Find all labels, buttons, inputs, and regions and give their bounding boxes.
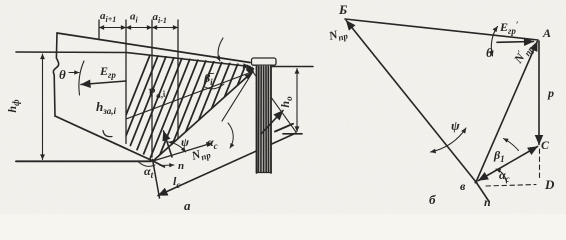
N_pr arrow at vertex (up) [164,131,173,157]
n leader arrow [160,164,174,167]
beta_i arc [205,84,224,89]
fan line steep short [222,72,253,122]
theta arc at wall [79,61,84,95]
E_gr arrow [81,81,126,85]
l_c long arrow [158,133,296,196]
slip line from vertex to pile [153,72,253,162]
pile cap [252,58,277,65]
line crossing pile to h0 bottom [253,72,296,132]
dashed C-D [539,149,541,180]
small curl on block bottom edge [103,131,112,137]
alpha_c arc [228,123,233,148]
n normal stub [153,161,165,167]
alpha_c arc [496,169,507,183]
arrowheads at convergence point [243,66,249,67]
N_pr inclined line [153,143,212,161]
N'_pr vector v->A [476,42,537,183]
E'_gr arrow [497,41,534,44]
block left edge with break symbol [53,33,58,116]
dimension line a_{i+1} [99,27,126,29]
arrow up-right at pile [261,111,283,135]
hatched soil wedge [96,40,284,224]
fan line shallow from pile point [126,72,253,120]
second surface line [16,52,250,67]
beta_1 arc [504,139,519,151]
N_pr vector v->B [346,21,476,183]
psi arc [431,128,467,152]
curved leader to beta_i [218,38,223,61]
point v dot [474,180,477,183]
dimension line a_i [126,27,152,29]
psi arc [169,142,186,152]
pile body [257,65,272,173]
h_0 dimension [296,69,298,132]
h_0 bottom extension line [283,133,302,135]
dimension line a_{i-1} [152,27,178,29]
scan grain overlay [0,0,1,1]
ground surface line (top edge of block to pile) [57,33,250,63]
wedge tip dark blob [246,65,255,76]
dashed v-D [486,185,536,187]
n stub through v [476,182,489,202]
line B-A [345,19,538,40]
Q vector v-C double arrows [479,147,538,181]
theta arc [491,27,497,57]
right ground line [271,66,313,68]
horizontal base line through vertex [16,160,151,162]
block bottom edge [55,116,153,161]
theta leader arrow [69,72,79,74]
P vector A->C [538,41,540,145]
top dimension ticks [98,20,100,39]
alpha_t arc [138,162,155,167]
h_f dimension line [42,54,44,160]
